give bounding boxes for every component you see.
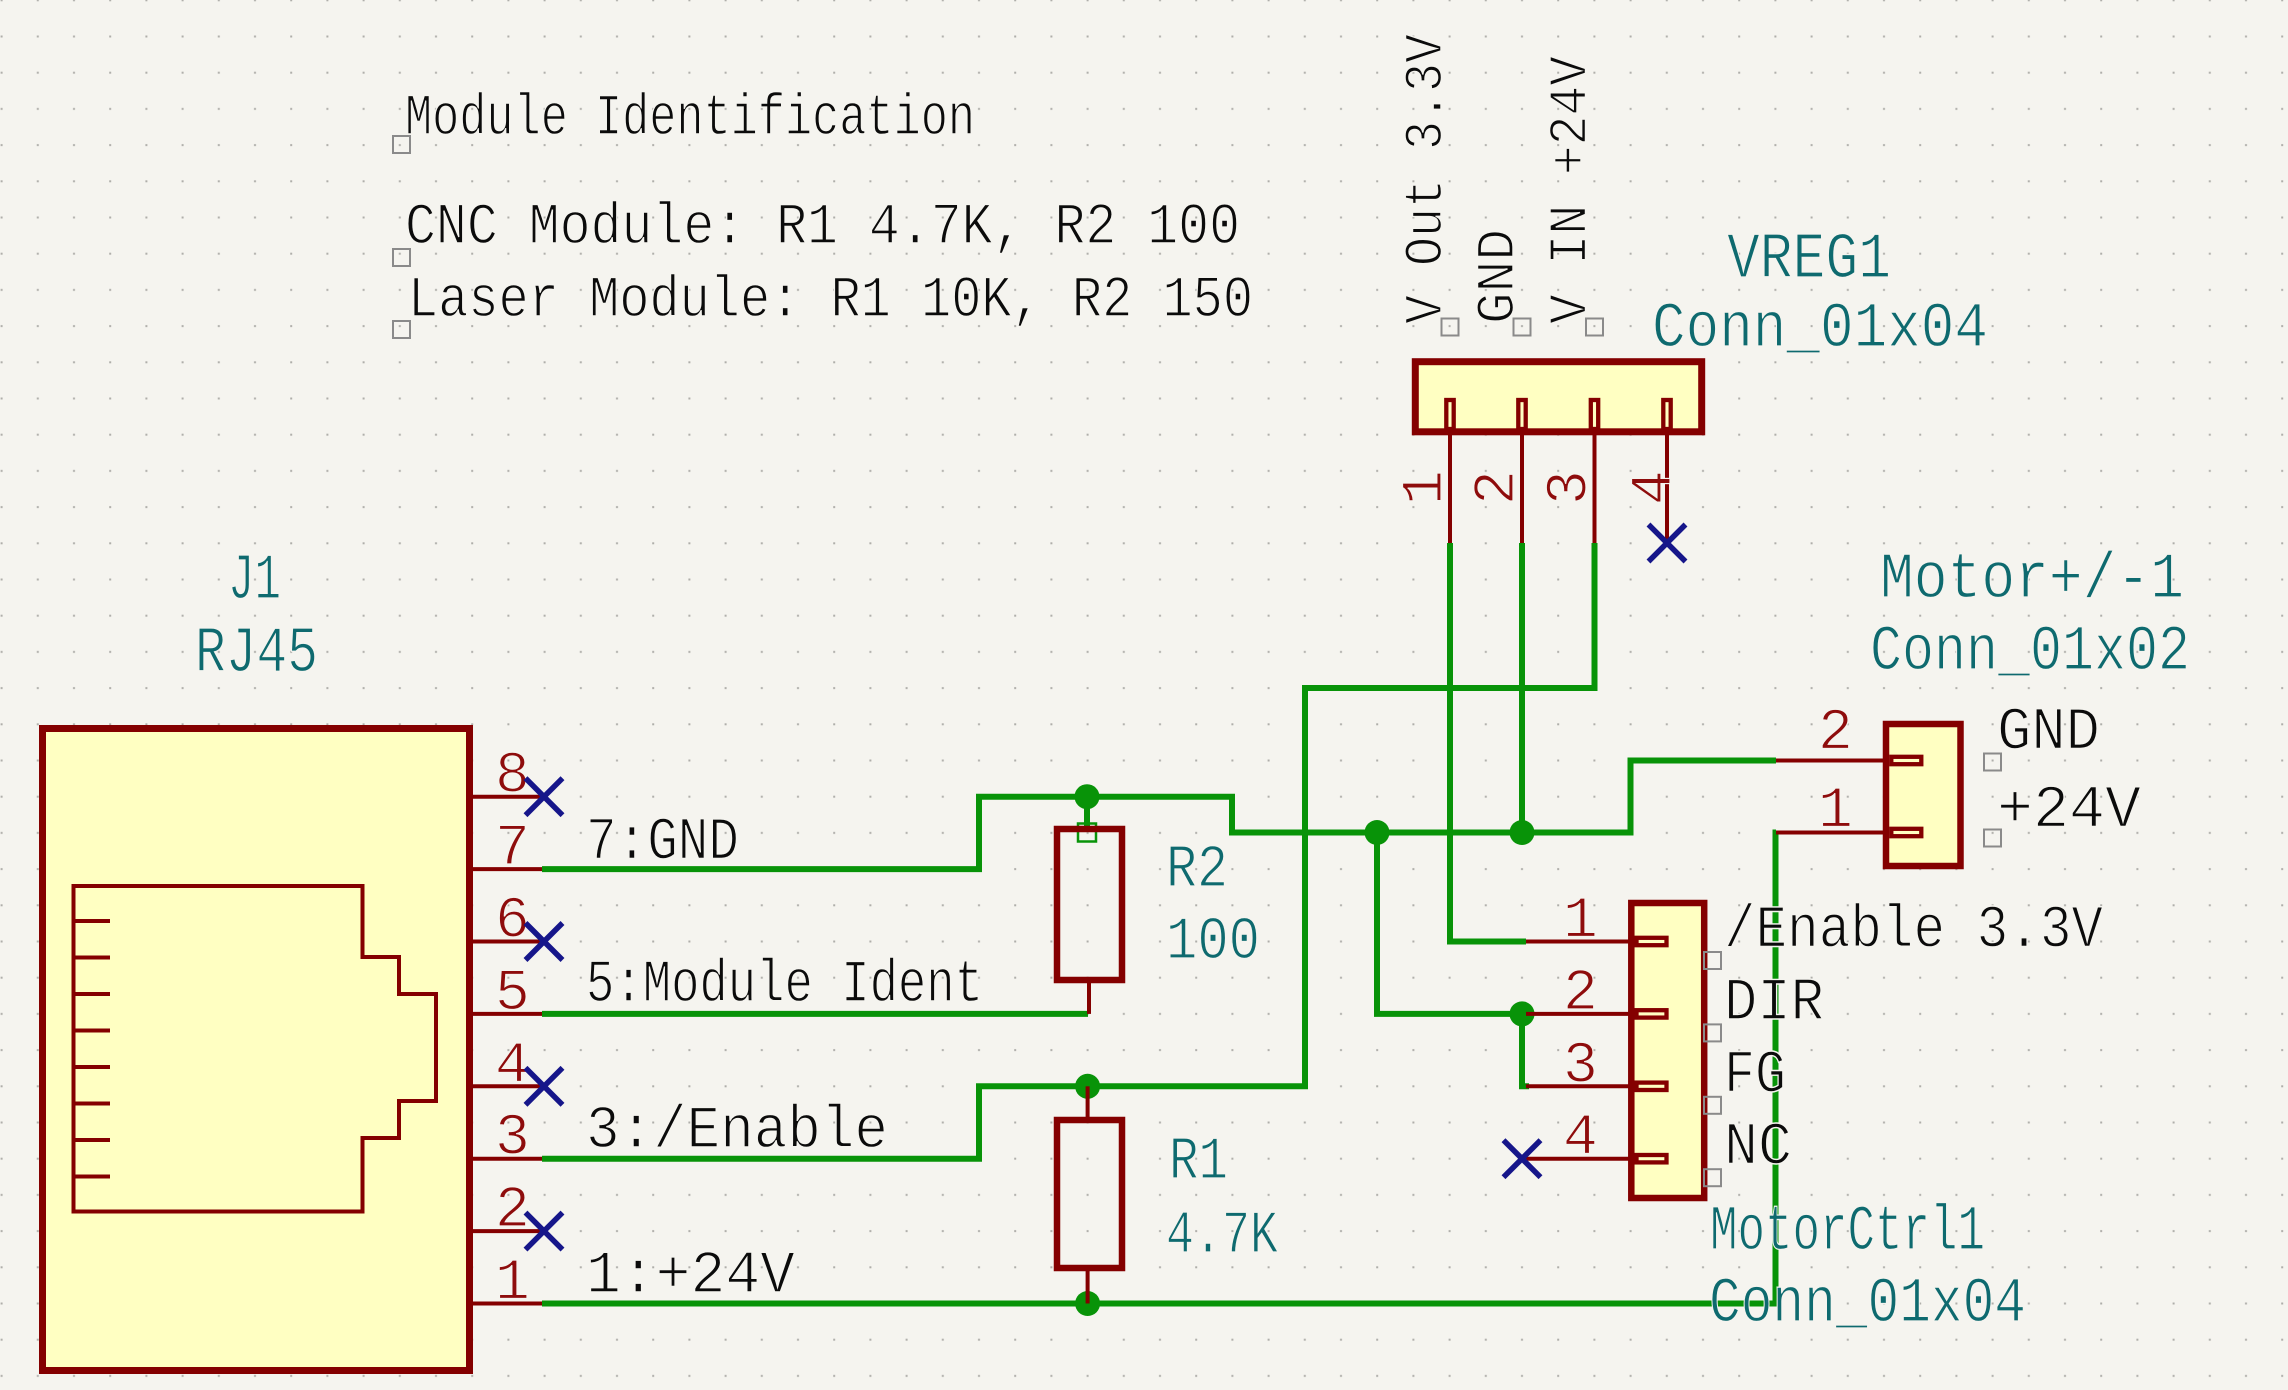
svg-text:2: 2 xyxy=(1563,962,1598,1027)
VREG1 name anchor square 3 xyxy=(1586,319,1603,336)
svg-text:3: 3 xyxy=(495,1107,530,1172)
VREG1 name anchor square 2 xyxy=(1514,319,1531,336)
wire end marker square R2 top xyxy=(1078,824,1096,842)
svg-text:4: 4 xyxy=(1623,470,1688,505)
svg-text:3:/Enable: 3:/Enable xyxy=(586,1098,888,1166)
svg-text:NC: NC xyxy=(1724,1115,1792,1183)
svg-text:7: 7 xyxy=(495,817,530,882)
svg-text:5: 5 xyxy=(495,962,530,1027)
connector Motor+/-1 body xyxy=(1886,724,1961,866)
svg-text:4: 4 xyxy=(1563,1107,1598,1172)
VREG1 pin 4 line xyxy=(1665,432,1669,543)
svg-text:/Enable 3.3V: /Enable 3.3V xyxy=(1724,898,2103,966)
junction R1 top xyxy=(1075,1074,1100,1099)
note anchor square 3 xyxy=(393,321,410,338)
resistor R2 xyxy=(1057,829,1122,980)
VREG1 pin pad 4 xyxy=(1663,400,1670,429)
svg-text:DIR: DIR xyxy=(1724,970,1824,1038)
J1 pin 4 xyxy=(473,1084,542,1088)
svg-text:7:GND: 7:GND xyxy=(586,810,739,878)
svg-text:Motor+/-1: Motor+/-1 xyxy=(1880,543,2184,617)
svg-text:Conn_01x04: Conn_01x04 xyxy=(1652,294,1988,366)
MotorCtrl pin 4 line xyxy=(1526,1157,1632,1161)
MotorCtrl pin pad 4 xyxy=(1637,1155,1667,1162)
J1 pin 5 xyxy=(473,1012,542,1016)
J1 pin 3 xyxy=(473,1157,542,1161)
no-connect X pin 2 xyxy=(526,1213,563,1250)
svg-text:3: 3 xyxy=(1539,470,1604,505)
VREG1 pin 2 line xyxy=(1520,432,1524,543)
svg-text:5:Module Ident: 5:Module Ident xyxy=(586,952,983,1020)
MotorCtrl pin 2 line xyxy=(1526,1012,1632,1016)
svg-text:V Out 3.3V: V Out 3.3V xyxy=(1397,33,1458,324)
wire GND net from J1 pin7 to VREG1 pin2 and Motor pin2 xyxy=(542,761,1776,870)
svg-text:2: 2 xyxy=(1818,702,1853,767)
junction R1 bottom +24V xyxy=(1075,1291,1100,1316)
wire VREG1 pin2 GND drop xyxy=(1519,543,1525,833)
J1 pin 7 xyxy=(473,867,542,871)
VREG1 pin pad 2 xyxy=(1518,400,1525,429)
R2 bottom pin stub xyxy=(1087,980,1091,1014)
note anchor square 1 xyxy=(393,136,410,153)
R1 top pin stub xyxy=(1086,1086,1090,1120)
svg-text:4.7K: 4.7K xyxy=(1166,1203,1278,1271)
MotorCtrl pin pad 2 xyxy=(1637,1010,1667,1017)
connector VREG1 body xyxy=(1415,362,1701,432)
J1 jack contact ticks xyxy=(74,921,111,1177)
svg-text:VREG1: VREG1 xyxy=(1727,223,1891,297)
wire VREG1 pin1 V Out to MotorCtrl pin1 xyxy=(1450,543,1526,942)
Motor pin 2 line xyxy=(1776,759,1886,763)
VREG1 pin 3 line xyxy=(1593,432,1597,543)
VREG1 pin pad 1 xyxy=(1446,400,1453,429)
svg-text:MotorCtrl1: MotorCtrl1 xyxy=(1710,1197,1985,1269)
junction MotorCtrl pin2 xyxy=(1510,1001,1535,1026)
MotorCtrl pin 3 line xyxy=(1526,1084,1632,1088)
Motor pin pad 1 xyxy=(1891,829,1921,836)
connector J1 RJ45 body xyxy=(43,729,470,1371)
Motor name anchor square GND xyxy=(1984,754,2001,771)
svg-text:2: 2 xyxy=(495,1179,530,1244)
svg-text:R2: R2 xyxy=(1166,837,1228,905)
MotorCtrl name anchor square 1 xyxy=(1704,952,1721,969)
svg-text:8: 8 xyxy=(495,745,530,810)
Motor name anchor square +24V xyxy=(1984,830,2001,847)
wire /Enable net J1 pin3 to R1 top to VREG1 pin3 xyxy=(542,543,1595,1159)
MotorCtrl pin pad 1 xyxy=(1637,938,1667,945)
svg-text:1: 1 xyxy=(495,1252,530,1317)
resistor R1 xyxy=(1057,1120,1122,1268)
R1 bottom pin stub xyxy=(1086,1268,1090,1304)
no-connect X pin 8 xyxy=(526,778,563,815)
J1 pin 6 xyxy=(473,940,542,944)
svg-text:3: 3 xyxy=(1563,1035,1598,1100)
no-connect X pin 4 xyxy=(526,1068,563,1105)
no-connect X VREG1 pin 4 xyxy=(1649,525,1686,562)
MotorCtrl pin pad 3 xyxy=(1637,1083,1667,1090)
svg-text:1: 1 xyxy=(1818,780,1853,845)
svg-text:1:+24V: 1:+24V xyxy=(586,1243,795,1311)
connector MotorCtrl1 body xyxy=(1631,903,1704,1198)
MotorCtrl name anchor square 4 xyxy=(1704,1169,1721,1186)
svg-text:RJ45: RJ45 xyxy=(195,617,318,691)
svg-text:4: 4 xyxy=(495,1034,530,1099)
J1 jack symbol outline xyxy=(74,886,437,1212)
svg-text:FG: FG xyxy=(1724,1043,1786,1111)
wire GND branch to MotorCtrl pin2 xyxy=(1377,833,1522,1014)
J1 pin 2 xyxy=(473,1229,542,1233)
svg-text:CNC Module: R1 4.7K, R2 100: CNC Module: R1 4.7K, R2 100 xyxy=(405,196,1240,261)
svg-text:Conn_01x04: Conn_01x04 xyxy=(1709,1269,2026,1341)
svg-text:2: 2 xyxy=(1466,470,1531,505)
svg-text:Conn_01x02: Conn_01x02 xyxy=(1870,617,2190,689)
svg-text:100: 100 xyxy=(1166,909,1260,977)
svg-text:Module Identification: Module Identification xyxy=(405,87,975,152)
VREG1 pin 1 line xyxy=(1448,432,1452,543)
MotorCtrl pin 1 line xyxy=(1526,940,1632,944)
Motor pin 1 line xyxy=(1776,831,1886,835)
note anchor square 2 xyxy=(393,249,410,266)
junction GND rail branch xyxy=(1365,820,1390,845)
svg-text:1: 1 xyxy=(1394,470,1459,505)
svg-text:GND: GND xyxy=(1997,700,2100,768)
no-connect X pin 6 xyxy=(526,923,563,960)
svg-text:1: 1 xyxy=(1563,890,1598,955)
wire stub GND to R2 top (dangling) xyxy=(1084,797,1090,830)
wire MotorCtrl pin2 to pin3 xyxy=(1522,1014,1529,1086)
wire +24V net J1 pin1 to R1 bottom to Motor pin1 xyxy=(542,833,1776,1304)
junction GND rail VREG pin2 xyxy=(1510,820,1535,845)
J1 pin 8 xyxy=(473,795,542,799)
MotorCtrl name anchor square 2 xyxy=(1704,1024,1721,1041)
svg-text:GND: GND xyxy=(1469,229,1530,324)
VREG1 pin pad 3 xyxy=(1591,400,1598,429)
VREG1 name anchor square 1 xyxy=(1442,319,1459,336)
wire Module Ident J1 pin5 to R2 bottom xyxy=(542,1011,1088,1017)
svg-text:J1: J1 xyxy=(228,544,281,618)
junction at R2 top GND xyxy=(1075,784,1100,809)
svg-text:V IN +24V: V IN +24V xyxy=(1542,55,1603,324)
svg-text:Laser Module: R1 10K, R2 150: Laser Module: R1 10K, R2 150 xyxy=(408,269,1253,334)
Motor pin pad 2 xyxy=(1891,757,1921,764)
J1 pin 1 xyxy=(473,1302,542,1306)
svg-text:+24V: +24V xyxy=(1997,778,2141,846)
no-connect X MotorCtrl pin 4 xyxy=(1504,1140,1541,1177)
svg-text:6: 6 xyxy=(495,890,530,955)
svg-text:R1: R1 xyxy=(1169,1129,1228,1197)
MotorCtrl name anchor square 3 xyxy=(1704,1097,1721,1114)
